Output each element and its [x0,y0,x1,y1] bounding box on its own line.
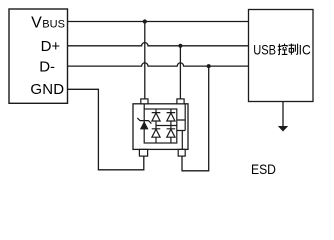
svg-text:D+: D+ [41,38,61,55]
svg-text:GND: GND [30,81,64,98]
svg-text:BUS: BUS [42,19,65,31]
svg-text:D-: D- [39,58,55,75]
svg-text:IC: IC [299,42,311,58]
svg-text:V: V [31,15,42,32]
svg-text:ESD: ESD [251,161,276,177]
svg-text:USB: USB [253,43,276,58]
